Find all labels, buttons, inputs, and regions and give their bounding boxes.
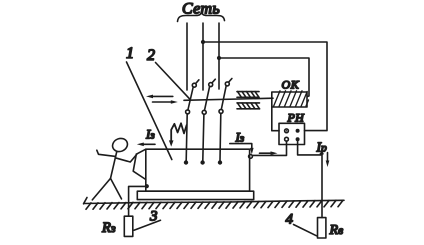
insulation fault lightning bolt bbox=[169, 123, 187, 146]
label РН bbox=[287, 111, 306, 125]
label Rв bbox=[329, 223, 344, 238]
wire coil OK to relay contact terminal bbox=[272, 105, 279, 131]
switch linkage bar / plunger rod bbox=[184, 98, 273, 100]
wire switch pole 2 to motor bbox=[203, 114, 204, 160]
label 1 bbox=[126, 45, 134, 62]
wire phase B to relay contact terminal bbox=[203, 42, 327, 131]
wire phase A bbox=[186, 23, 188, 90]
junction dot phase C bbox=[217, 56, 221, 60]
wire relay coil to machine casing bbox=[253, 141, 287, 155]
svg-text:ОК: ОК bbox=[282, 78, 300, 92]
label 2 bbox=[147, 47, 155, 64]
motor terminal dot 3 bbox=[218, 160, 222, 164]
svg-text:Iр: Iр bbox=[316, 140, 328, 155]
svg-text:2: 2 bbox=[147, 47, 155, 64]
casing terminal circle bbox=[249, 155, 253, 159]
wire switch pole 1 to motor bbox=[186, 114, 187, 160]
current arrow on casing wire bbox=[260, 151, 278, 155]
earth electrode Rз bbox=[124, 216, 133, 236]
label Iр bbox=[316, 140, 328, 155]
grounding conductor to earth electrode Rз bbox=[129, 186, 147, 216]
svg-text:Rв: Rв bbox=[329, 223, 344, 238]
svg-text:Iз: Iз bbox=[145, 127, 155, 142]
arrow Iз right (bent, pointing down to casing terminal) bbox=[230, 144, 254, 155]
wire phase C to coil OK bbox=[219, 58, 309, 97]
motor terminal dot 1 bbox=[184, 160, 188, 164]
svg-text:Iз: Iз bbox=[235, 130, 245, 145]
svg-text:Rз: Rз bbox=[101, 220, 116, 236]
svg-text:1: 1 bbox=[126, 45, 134, 62]
svg-text:4: 4 bbox=[286, 212, 294, 228]
label Iз right bbox=[235, 130, 245, 145]
lower fixed guide bbox=[237, 103, 260, 109]
wire phase C bbox=[218, 23, 220, 89]
motion arrow pointing left bbox=[146, 95, 173, 99]
relay terminal bottom-left bbox=[285, 137, 289, 141]
machine (electric motor) body bbox=[133, 149, 249, 191]
person touching the casing bbox=[92, 136, 136, 200]
switch pole 3 bbox=[219, 79, 232, 114]
label Сеть (mains) bbox=[182, 1, 220, 18]
relay terminal top-right bbox=[296, 129, 300, 133]
wire switch pole 3 to motor bbox=[219, 113, 222, 160]
label ОК bbox=[282, 78, 300, 92]
relay terminal top-left bbox=[285, 129, 289, 133]
machine base pedestal bbox=[137, 191, 253, 199]
relay terminal bottom-right bbox=[296, 137, 300, 141]
grounding conductor junction dot on machine bbox=[145, 184, 149, 188]
label Iз left bbox=[145, 127, 155, 142]
brace under Сеть bbox=[178, 12, 225, 22]
wire phase B bbox=[202, 23, 204, 90]
tripping coil OK bbox=[272, 91, 309, 107]
arrow Iр pointing down bbox=[326, 153, 330, 168]
motor terminal dot 2 bbox=[200, 160, 204, 164]
motion arrow pointing right bbox=[153, 100, 178, 104]
label 3 bbox=[149, 209, 158, 225]
leader line from label 1 to machine bbox=[127, 62, 172, 160]
upper fixed guide bbox=[237, 92, 259, 98]
auxiliary earth electrode Rв bbox=[318, 218, 326, 238]
label 4 bbox=[286, 212, 294, 228]
wire relay coil to auxiliary electrode Rв bbox=[298, 141, 322, 217]
ground surface bbox=[84, 198, 345, 210]
label Rз bbox=[101, 220, 116, 236]
switch pole 1 bbox=[186, 80, 199, 114]
svg-text:РН: РН bbox=[287, 111, 306, 125]
leader line from label 2 to switch bbox=[156, 63, 191, 100]
arrow Iз left (pointing left) bbox=[137, 143, 155, 147]
leader line from label 4 to electrode bbox=[294, 225, 317, 236]
voltage relay PH box bbox=[279, 123, 305, 144]
switch pole 2 bbox=[202, 79, 215, 114]
junction dot phase B bbox=[201, 40, 205, 44]
leader line from label 3 to electrode bbox=[134, 220, 161, 230]
